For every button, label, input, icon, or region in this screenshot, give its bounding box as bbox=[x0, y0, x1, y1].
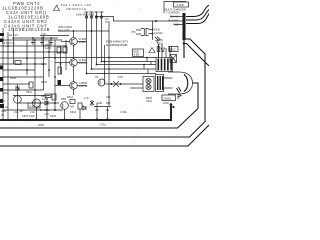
junction dot bbox=[96, 118, 98, 120]
resistor R622 bbox=[52, 94, 56, 100]
cable wire from horn bbox=[0, 83, 198, 128]
svg-text:2SB8: 2SB8 bbox=[79, 40, 86, 44]
wire bbox=[3, 83, 30, 85]
left grid wire bbox=[2, 28, 4, 120]
svg-text:SW+5V: SW+5V bbox=[170, 16, 179, 19]
wire mid vertical bbox=[108, 21, 110, 106]
edge connector tab bbox=[58, 80, 62, 85]
svg-text:C612: C612 bbox=[146, 100, 153, 103]
svg-text:C4R: C4R bbox=[1, 110, 6, 113]
wire bbox=[136, 30, 153, 35]
junction dot bbox=[40, 109, 42, 111]
bus wire B3 bbox=[96, 12, 98, 65]
wire bbox=[3, 69, 35, 71]
warning triangle A2 bbox=[149, 48, 155, 53]
warning triangle A1 bbox=[54, 6, 60, 11]
cap stub bbox=[49, 38, 53, 45]
resistor R14 bbox=[58, 67, 62, 74]
junction dot bbox=[34, 63, 36, 65]
resistor R11 bbox=[15, 61, 21, 65]
junction dot bbox=[54, 109, 56, 111]
wire bbox=[0, 57, 45, 59]
transistor Q612 bbox=[33, 99, 41, 107]
resistor R12 bbox=[57, 47, 61, 53]
pin bar bbox=[164, 59, 166, 71]
relay box with contacts bbox=[143, 77, 154, 92]
resistor R603 bbox=[157, 47, 160, 52]
junction dot bbox=[170, 103, 172, 105]
pcb name text bbox=[106, 40, 129, 48]
harness wire H2 bbox=[102, 61, 157, 63]
resistor R13 bbox=[63, 47, 67, 53]
svg-text:T CARSON: T CARSON bbox=[166, 11, 179, 15]
svg-text:(75): (75) bbox=[131, 31, 136, 34]
diode D613 bbox=[45, 101, 48, 105]
hatch blob bbox=[155, 37, 161, 43]
resistor R618 bbox=[78, 103, 82, 109]
diode D612 bbox=[83, 106, 86, 110]
svg-text:R8M: R8M bbox=[61, 98, 66, 101]
long wire W1 bbox=[0, 39, 205, 137]
wire bbox=[3, 76, 43, 78]
wire bbox=[0, 63, 45, 65]
wire bbox=[106, 83, 144, 85]
junction dot bbox=[86, 73, 88, 75]
junction dot bbox=[54, 102, 56, 104]
harness wire H4 bbox=[92, 68, 157, 70]
junction dot bbox=[73, 30, 75, 32]
junction dot bbox=[64, 119, 66, 121]
wire bbox=[7, 32, 9, 120]
long wire W3 bottom bbox=[0, 125, 209, 146]
bus arrow tick bbox=[85, 11, 104, 13]
multi changer box outline bbox=[164, 2, 186, 14]
ferrite bead L1 bbox=[85, 16, 87, 18]
pin wire bbox=[158, 44, 160, 58]
harness wire H1 bbox=[44, 57, 156, 59]
junction dot bbox=[152, 33, 154, 35]
wire top rail bbox=[12, 37, 58, 39]
junction dot bbox=[48, 69, 50, 71]
diode D602 bbox=[161, 48, 165, 52]
pin bar bbox=[161, 59, 163, 71]
wire A to changer bbox=[97, 17, 183, 22]
wire mid vertical 2 bbox=[104, 45, 106, 84]
wire bbox=[13, 95, 50, 97]
svg-text:(?): (?) bbox=[1, 114, 4, 117]
cable horn bbox=[173, 72, 193, 94]
junction dot bbox=[36, 119, 38, 121]
junction dot boundary top bbox=[170, 103, 173, 106]
svg-text:C?1a: C?1a bbox=[100, 124, 106, 127]
svg-text:C62: C62 bbox=[106, 96, 111, 99]
stub to ground bbox=[37, 98, 81, 121]
capacitor pair C601 bbox=[94, 103, 111, 120]
wire to Q802 bbox=[61, 41, 70, 43]
junction dot bbox=[104, 61, 106, 63]
bus wire B1 bbox=[86, 12, 88, 74]
title text block PWB CNT2 bbox=[2, 1, 50, 32]
edge tab rect bbox=[0, 104, 4, 108]
connector CN602 box bbox=[162, 95, 176, 101]
svg-text:1CG0B10E1164B: 1CG0B10E1164B bbox=[8, 27, 50, 32]
svg-text:R604: R604 bbox=[10, 77, 17, 80]
junction dot bbox=[108, 57, 110, 59]
board boundary thick line bbox=[0, 105, 171, 121]
junction dot bbox=[104, 73, 106, 75]
pin block small bbox=[156, 75, 164, 92]
resistor R617 bbox=[70, 100, 75, 104]
wire bbox=[34, 40, 36, 103]
junction dot bbox=[143, 64, 145, 66]
junction dot bbox=[96, 16, 98, 18]
svg-text:C614: C614 bbox=[70, 111, 77, 114]
wire bbox=[65, 40, 67, 70]
connector CN601 pin block bbox=[156, 58, 173, 72]
svg-text:LB/CNT2 HL: LB/CNT2 HL bbox=[66, 7, 87, 11]
wire from Q802 bbox=[77, 41, 86, 43]
svg-text:1 63A: 1 63A bbox=[120, 111, 127, 114]
edge tab rect bbox=[0, 33, 4, 36]
label box 4SW bbox=[174, 2, 189, 7]
pin bar bbox=[167, 59, 169, 71]
wire bbox=[48, 40, 50, 77]
label box SC2 bbox=[170, 47, 179, 52]
pin bar bbox=[157, 76, 158, 90]
harness wire H3 bbox=[97, 64, 157, 66]
svg-text:C806: C806 bbox=[41, 63, 48, 66]
wire upper rail bbox=[58, 30, 109, 32]
junction dot bbox=[182, 15, 184, 17]
svg-text:8/16 CNT: 8/16 CNT bbox=[58, 29, 70, 33]
svg-text:A9?: A9? bbox=[70, 106, 75, 109]
svg-text:A 5M: A 5M bbox=[134, 54, 140, 57]
transistor Q802 bbox=[70, 38, 78, 46]
edge tab rect bbox=[0, 39, 3, 43]
wire to changer top 1 bbox=[186, 5, 209, 17]
pin wire bbox=[165, 48, 167, 58]
contact circle bbox=[146, 78, 151, 83]
asterisk mark bbox=[90, 100, 94, 106]
junction dot bbox=[146, 57, 148, 59]
svg-text:R612: R612 bbox=[67, 96, 74, 99]
stub wire bbox=[164, 72, 173, 94]
stub wire bbox=[170, 17, 183, 25]
junction dot bbox=[26, 69, 28, 71]
harness stub bbox=[144, 58, 151, 74]
junction dot bbox=[46, 109, 48, 111]
junction dot bbox=[34, 89, 36, 91]
svg-text:A6A8: A6A8 bbox=[38, 124, 45, 127]
diode D611 bbox=[16, 87, 19, 91]
svg-text:L601: L601 bbox=[97, 102, 103, 105]
wire Q601 to pins bbox=[158, 44, 160, 58]
pin bar bbox=[162, 76, 163, 90]
bus wire B2 bbox=[91, 12, 93, 69]
resistor R615 box bbox=[28, 103, 40, 108]
junction dot bbox=[183, 38, 185, 40]
svg-text:2.2k: 2.2k bbox=[30, 111, 35, 114]
transistor Q806 bbox=[70, 82, 78, 90]
svg-text:R618: R618 bbox=[50, 115, 57, 118]
wire bbox=[13, 28, 15, 64]
wire to changer top 3 bbox=[186, 14, 209, 24]
svg-text:IC601 MAIN: IC601 MAIN bbox=[58, 25, 72, 29]
cap stub bbox=[40, 38, 44, 45]
junction dot bbox=[91, 30, 93, 32]
junction dot bbox=[106, 118, 108, 120]
wire bbox=[130, 87, 143, 89]
svg-text:R810: R810 bbox=[41, 81, 48, 84]
svg-text:C?8a: C?8a bbox=[44, 109, 50, 112]
svg-text:SC2: SC2 bbox=[171, 48, 177, 52]
svg-text:6.3V: 6.3V bbox=[118, 76, 123, 79]
ferrite bead L2 bbox=[90, 16, 92, 18]
horn hatch bbox=[177, 87, 182, 93]
resistor R616 bbox=[45, 94, 51, 98]
wire bbox=[26, 40, 28, 75]
pin bar bbox=[158, 59, 160, 71]
label text bbox=[3, 76, 127, 118]
wire from Q801 bbox=[77, 62, 86, 64]
svg-text:2SC18: 2SC18 bbox=[79, 84, 88, 88]
junction dot bbox=[101, 61, 103, 63]
pin bar bbox=[170, 59, 172, 71]
svg-text:4 SW: 4 SW bbox=[177, 3, 185, 7]
junction dot bbox=[26, 57, 28, 59]
long wire W2 bbox=[184, 44, 209, 67]
ferrite bead L3 bbox=[95, 16, 97, 18]
junction dot bbox=[183, 42, 185, 44]
junction dot bbox=[50, 37, 52, 39]
bus labels bbox=[57, 3, 95, 17]
svg-text:A?1: A?1 bbox=[1, 100, 6, 103]
svg-text:1N4: 1N4 bbox=[14, 111, 19, 114]
pin wire bbox=[169, 48, 171, 58]
junction dot bbox=[155, 20, 157, 22]
junction dot bbox=[34, 39, 36, 41]
transistor Q809 bbox=[98, 79, 105, 86]
wire to Q806 bbox=[55, 85, 70, 87]
svg-text:470: 470 bbox=[41, 32, 46, 36]
svg-text:2-2k: 2-2k bbox=[30, 104, 36, 108]
svg-text:MAIN/5M: MAIN/5M bbox=[168, 20, 178, 23]
junction dot bbox=[7, 45, 9, 47]
diode bridge X mark bbox=[113, 81, 119, 87]
pin wire bbox=[161, 44, 163, 58]
svg-text:1/2W: 1/2W bbox=[45, 46, 52, 50]
transistor Q801 bbox=[70, 59, 78, 67]
svg-text:C615 1/2W: C615 1/2W bbox=[22, 115, 35, 118]
svg-text:4.7μ: 4.7μ bbox=[84, 97, 89, 100]
box with X bbox=[170, 55, 177, 63]
edge tab rect bbox=[0, 66, 3, 70]
junction dot bbox=[41, 37, 43, 39]
junction dot bbox=[60, 63, 62, 65]
junction dot bbox=[48, 51, 50, 53]
resistor R621 bbox=[29, 82, 33, 88]
label box D801 bbox=[133, 49, 144, 57]
cable horn inner arc bbox=[184, 75, 188, 92]
connector pair CN3 bbox=[141, 29, 149, 36]
junction dot bbox=[182, 22, 184, 24]
wire to Q801 bbox=[55, 62, 70, 64]
harness wire H5 bbox=[87, 73, 157, 75]
svg-text:R63: R63 bbox=[106, 102, 111, 105]
ferrite bead L4 bbox=[100, 16, 102, 18]
wire bbox=[43, 36, 45, 90]
junction dot bbox=[108, 68, 110, 70]
junction dot bbox=[13, 51, 15, 53]
edge tab rect bbox=[0, 99, 3, 103]
junction dot bbox=[54, 109, 56, 111]
pin bar bbox=[160, 76, 161, 90]
edge tab rect bbox=[0, 88, 3, 92]
wire below bar bbox=[183, 40, 185, 58]
junction dot bbox=[65, 45, 67, 47]
svg-text:2SC18: 2SC18 bbox=[79, 61, 88, 65]
svg-text:R602: R602 bbox=[157, 43, 164, 46]
wire bbox=[40, 35, 69, 37]
collector wire bbox=[73, 31, 75, 95]
scan speckle noise bbox=[6, 2, 204, 144]
svg-text:GND: GND bbox=[173, 24, 179, 27]
junction dot bbox=[152, 29, 154, 31]
junction dot bbox=[120, 83, 122, 85]
wire to changer top 2 bbox=[186, 10, 209, 21]
cap stub bbox=[31, 38, 35, 45]
junction dot bbox=[91, 68, 93, 70]
wire from Q806 bbox=[77, 85, 86, 87]
transistor Q611 bbox=[14, 96, 22, 104]
connector bar CN41 bbox=[183, 13, 186, 40]
svg-text:13.8(20: 13.8(20 bbox=[154, 32, 163, 35]
junction dot bbox=[172, 106, 174, 108]
edge tab rect bbox=[0, 77, 3, 81]
wire bbox=[18, 102, 60, 104]
transistor Q613 bbox=[61, 102, 69, 110]
wire bbox=[152, 21, 154, 41]
junction dot bbox=[54, 76, 56, 78]
wire bbox=[54, 40, 56, 110]
bus wire B4 bbox=[101, 12, 103, 62]
wire bbox=[17, 84, 19, 120]
contact circle bbox=[146, 84, 151, 89]
wire bbox=[3, 109, 63, 111]
junction dot bbox=[2, 39, 4, 41]
junction dot bbox=[111, 83, 113, 85]
wire bbox=[0, 51, 66, 53]
svg-text:6V: 6V bbox=[105, 21, 108, 24]
junction dot bbox=[182, 19, 184, 21]
wire bbox=[0, 39, 62, 41]
junction dot bbox=[54, 57, 56, 59]
junction dot bbox=[32, 37, 34, 39]
svg-text:1/2W: 1/2W bbox=[42, 98, 48, 101]
svg-text:C611: C611 bbox=[26, 91, 32, 94]
label text bbox=[41, 25, 72, 50]
svg-text:A 5M: A 5M bbox=[163, 102, 169, 105]
resistor R604 bbox=[169, 47, 172, 52]
svg-text:R611: R611 bbox=[3, 92, 9, 95]
flag P bbox=[178, 94, 181, 99]
junction dot bbox=[54, 102, 56, 104]
label text bbox=[106, 96, 111, 105]
svg-text:CN601: CN601 bbox=[164, 97, 172, 100]
wire bbox=[60, 46, 62, 74]
wire bbox=[0, 45, 66, 47]
junction dot bbox=[96, 64, 98, 66]
junction dot bbox=[43, 45, 45, 47]
wire bbox=[3, 89, 44, 91]
